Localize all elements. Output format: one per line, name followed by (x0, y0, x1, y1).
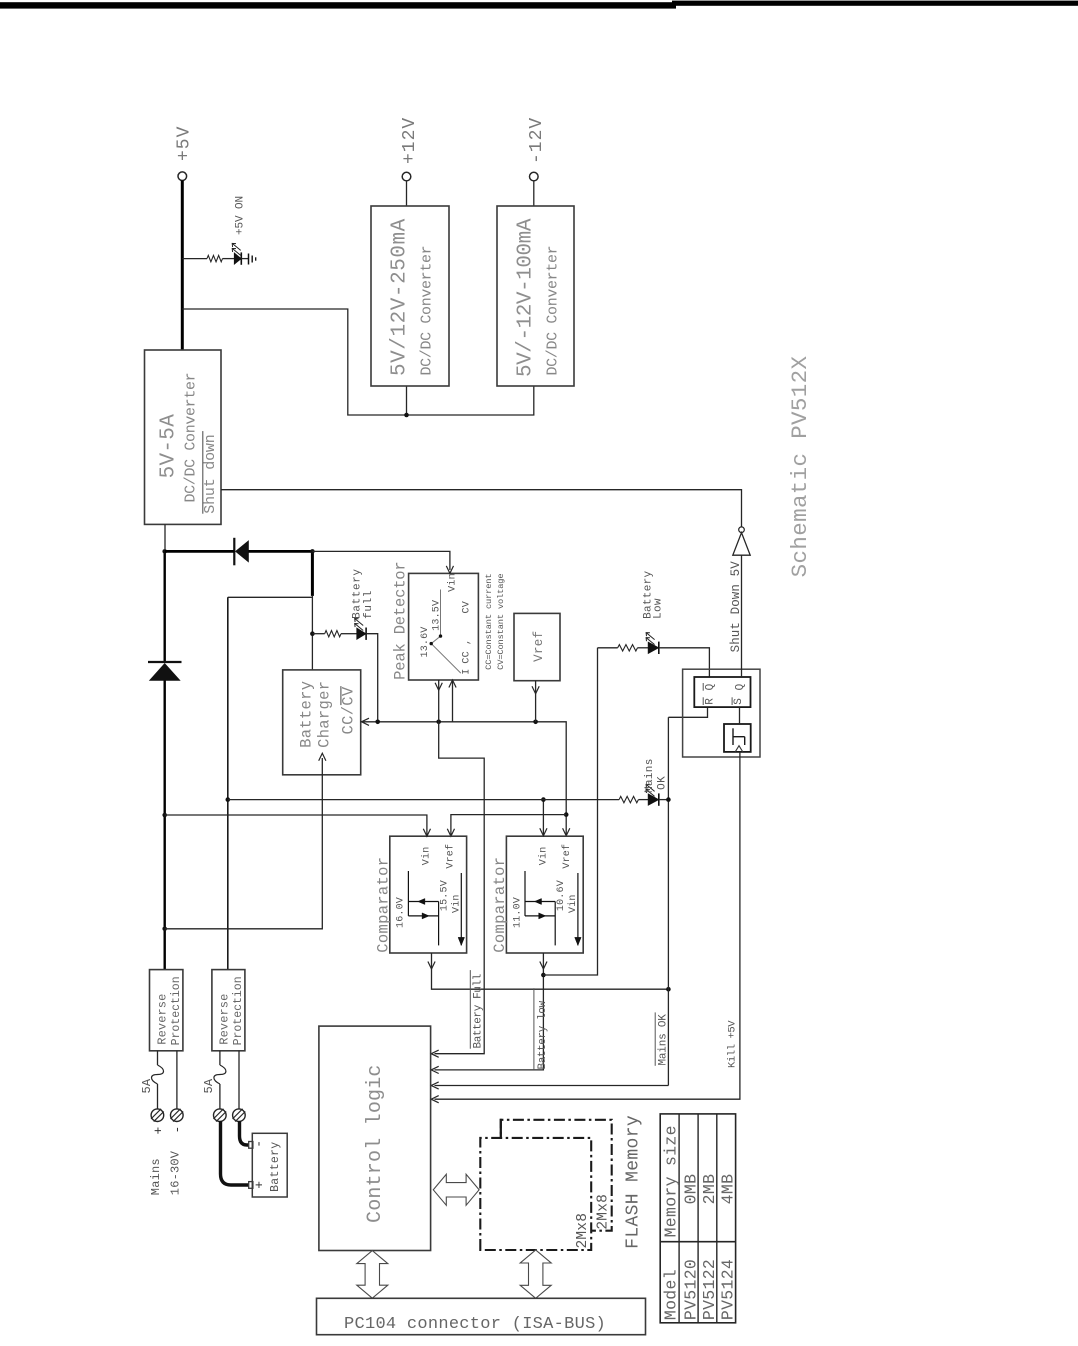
wire battery-full LED to control rail (366, 634, 378, 722)
node +12V terminal (402, 172, 411, 181)
junction dot battery sense tap (226, 797, 231, 802)
wire battery rail to charger (311, 596, 313, 670)
bus arrow control-flash (433, 1174, 479, 1205)
svg-text:13.6V: 13.6V (420, 626, 431, 657)
inverter U9 (733, 533, 750, 556)
svg-text:+5V ON: +5V ON (235, 196, 247, 235)
wire battery minus (238, 1051, 240, 1109)
table model/memory box (660, 1114, 735, 1323)
wire latch R input link (668, 707, 707, 717)
svg-text:OK: OK (657, 776, 669, 790)
arrow into charger (362, 718, 370, 725)
svg-text:CC=Constant current: CC=Constant current (484, 574, 494, 670)
svg-text:15.5V: 15.5V (440, 880, 451, 911)
svg-text:DC/DC Converter: DC/DC Converter (545, 246, 562, 376)
resistor R-LED5V (182, 258, 207, 260)
junction dot comp2 vin tap (541, 797, 546, 802)
svg-text:DC/DC Converter: DC/DC Converter (419, 246, 436, 376)
converter U3 5V/-12V-100mA box (497, 206, 574, 386)
clock caret (735, 746, 743, 752)
svg-text:Vref: Vref (532, 631, 546, 662)
wire battery-low to LED chain (543, 648, 597, 975)
wire vref output (535, 681, 537, 722)
arrow control input1 (431, 1050, 439, 1057)
svg-text:5A: 5A (202, 1078, 216, 1093)
LED Battery Low (648, 642, 659, 654)
ground (248, 254, 250, 265)
svg-text:Reverse: Reverse (218, 994, 232, 1045)
arrow peak Vin (446, 566, 453, 574)
arrow comp2 out (540, 962, 547, 970)
one-shot U8 box (724, 724, 751, 752)
resistor R-battfull (312, 633, 324, 635)
LED Battery full (357, 628, 366, 640)
bus arrow flash-pc104 (520, 1250, 551, 1298)
arrow comp1 vref (447, 829, 454, 837)
svg-text:10.6V: 10.6V (556, 880, 567, 911)
converter U1 5V-5A box (145, 350, 222, 524)
junction dot converters input (404, 413, 409, 418)
svg-text:5V/-12V-100mA: 5V/-12V-100mA (515, 218, 538, 377)
battery terminal - (249, 1142, 253, 1149)
svg-text:Memory size: Memory size (662, 1125, 681, 1237)
svg-text:Battery: Battery (352, 568, 364, 618)
connector PC104 box (317, 1298, 646, 1334)
svg-text:13.5V: 13.5V (431, 600, 442, 631)
peak detector U5 box (409, 573, 479, 680)
svg-text:+: + (252, 1181, 267, 1189)
arrow comp2 vref (563, 828, 570, 836)
flash back box solid corner (500, 1119, 502, 1138)
protection U11 Reverse Protection box (212, 970, 245, 1051)
svg-text:CV=Constant voltage: CV=Constant voltage (496, 574, 506, 670)
svg-text:Schematic PV512X: Schematic PV512X (787, 356, 813, 578)
junction dot comp2-out branch (541, 973, 546, 978)
diode D1 mains (150, 664, 181, 681)
wire +12V stub (406, 181, 408, 206)
shutdown logic outer box (683, 669, 760, 757)
svg-text:Q: Q (735, 683, 747, 690)
svg-text:Vin: Vin (567, 894, 579, 913)
control logic U12 box (319, 1026, 431, 1250)
screw terminal batt 2 (233, 1109, 246, 1122)
battery terminal + (249, 1182, 253, 1189)
node -12V terminal (530, 172, 539, 181)
svg-text:Vin: Vin (537, 847, 549, 866)
battery cable + (221, 1121, 249, 1185)
wire +5V rail (thick) (181, 181, 184, 351)
svg-text:Shut down: Shut down (202, 434, 219, 513)
battery cable - (240, 1121, 250, 1145)
svg-text:Vin: Vin (421, 847, 433, 866)
wire battery line (227, 597, 229, 969)
svg-text:PC104 connector (ISA-BUS): PC104 connector (ISA-BUS) (344, 1315, 606, 1334)
wire 5V-5A output stub (164, 524, 166, 551)
wire -12V stub (533, 181, 535, 206)
resistor R-mainsok (619, 796, 638, 802)
svg-text:11.0V: 11.0V (512, 897, 523, 928)
svg-text:+: + (151, 1127, 166, 1135)
junction dot vref tap (533, 720, 538, 725)
svg-text:Battery: Battery (269, 1141, 282, 1191)
svg-text:Protection: Protection (232, 976, 245, 1045)
svg-text:5V/12V-250mA: 5V/12V-250mA (389, 218, 412, 376)
svg-text:CV: CV (461, 601, 472, 613)
svg-text:0MB: 0MB (681, 1174, 700, 1205)
svg-text:Peak Detector: Peak Detector (391, 561, 409, 679)
svg-text:4MB: 4MB (719, 1174, 738, 1205)
svg-text:16.0V: 16.0V (396, 897, 407, 928)
junction dot batt-full led tap (375, 720, 380, 725)
svg-text:Battery low: Battery low (537, 1000, 549, 1069)
arrow vref out (532, 686, 539, 694)
wire comp2 vref entry (565, 815, 567, 836)
svg-text:5V-5A: 5V-5A (158, 414, 181, 479)
screw terminal batt 1 (214, 1109, 227, 1122)
svg-text:Shut Down 5V: Shut Down 5V (729, 561, 743, 653)
arrow comp2 Vin (540, 828, 547, 836)
arrow control input4 (431, 1096, 439, 1103)
wire comp2 Vin (542, 800, 544, 836)
junction dot mains/5V-5A node (162, 549, 167, 554)
svg-text:Low: Low (652, 598, 664, 619)
svg-text:Vin: Vin (450, 894, 462, 913)
junction dot battery node (310, 549, 315, 554)
wire Vref/control rail (378, 722, 567, 815)
screw terminal mains - (171, 1109, 184, 1122)
converter U2 5V/12V-250mA box (371, 206, 449, 386)
comparator box Comparator (390, 836, 467, 953)
wire peak det ref input (452, 680, 454, 722)
LED Mains OK (648, 794, 659, 806)
svg-text:2Mx8: 2Mx8 (575, 1213, 591, 1249)
junction dot vref branch (564, 812, 569, 817)
wire diode D2 link (thick) (165, 550, 235, 553)
svg-text:Vin: Vin (446, 573, 458, 592)
svg-text:2Mx8: 2Mx8 (596, 1194, 612, 1230)
LED +5V ON (234, 253, 241, 265)
svg-text:Battery: Battery (297, 681, 315, 748)
screw terminal mains + (151, 1109, 164, 1122)
arrow peak out (435, 683, 442, 691)
arrow control input3 (431, 1082, 439, 1089)
overline Shut down (202, 431, 204, 514)
svg-text:Control logic: Control logic (364, 1064, 387, 1223)
wire mains minus (176, 1051, 178, 1109)
svg-text:CC/CV: CC/CV (339, 686, 357, 734)
svg-text:16-30V: 16-30V (168, 1150, 182, 1195)
svg-text:CC ,: CC , (461, 639, 472, 664)
svg-text:PV5120: PV5120 (681, 1259, 700, 1320)
wire LED to latch Q1 (659, 648, 710, 677)
vref arrow line (577, 873, 579, 945)
battery B1 box (252, 1133, 287, 1197)
svg-text:-12V: -12V (527, 117, 547, 164)
svg-text:+12V: +12V (400, 117, 420, 164)
svg-text:DC/DC Converter: DC/DC Converter (183, 373, 200, 503)
junction dot battery-full chain tap (310, 631, 315, 636)
junction dot comp1-out to mainsok line (666, 987, 671, 992)
comparator box Comparator (506, 836, 583, 953)
flash front box 2Mx8 (480, 1138, 591, 1250)
wire latch Q to inverter (741, 555, 743, 677)
table column line (660, 1241, 735, 1243)
svg-text:PV5122: PV5122 (700, 1259, 719, 1320)
wire +5V branch to converters (182, 309, 534, 415)
arrow charger feed (319, 753, 326, 761)
svg-text:5A: 5A (140, 1078, 154, 1093)
svg-text:I: I (461, 669, 472, 675)
wire one-shot to kill line (435, 752, 740, 1099)
svg-text:Vref: Vref (561, 844, 573, 869)
svg-text:-: - (252, 1140, 267, 1148)
junction dot mainsok/led (666, 797, 671, 802)
wire charger power feed (165, 758, 323, 929)
svg-text:Reverse: Reverse (155, 994, 169, 1045)
svg-text:-: - (170, 1126, 185, 1134)
wire peak det output (battery full) (438, 680, 440, 722)
wire mains-ok to control input3 (435, 1085, 669, 1087)
junction dot charger feed tap (162, 927, 167, 932)
arrow comp1 out (428, 962, 435, 970)
reference U6 Vref box (514, 613, 560, 680)
wire comp1 output (Mains OK) (432, 953, 669, 989)
svg-text:Comparator: Comparator (374, 857, 392, 953)
fuse F2 5A (219, 1051, 221, 1065)
hysteresis symbol (407, 871, 409, 916)
svg-text:FLASH Memory: FLASH Memory (623, 1115, 643, 1249)
wire shut-down to inverter (221, 490, 742, 527)
wire comp2 output (Battery low) (435, 953, 544, 1070)
svg-text:Battery Full: Battery Full (473, 974, 485, 1048)
svg-text:R: R (705, 698, 717, 705)
table row lines (678, 1114, 680, 1323)
svg-text:Kill +5V: Kill +5V (727, 1020, 739, 1068)
svg-text:Charger: Charger (315, 681, 333, 748)
overline CV (340, 686, 342, 705)
charger U4 Battery Charger box (283, 670, 361, 775)
svg-text:S: S (733, 698, 745, 705)
curve CC/CV characteristic (431, 590, 461, 674)
protection U10 Reverse Protection box (150, 970, 183, 1051)
svg-text:Protection: Protection (170, 976, 183, 1045)
svg-text:Mains: Mains (644, 758, 656, 793)
arrow control input2 (431, 1066, 439, 1073)
svg-text:Vref: Vref (444, 844, 456, 869)
wire battery sense down (228, 799, 619, 801)
junction dot comparator1 sense tap (162, 813, 167, 818)
vref arrow line (460, 873, 462, 945)
bus arrow control-pc104 (357, 1251, 388, 1299)
wire peak detector Vin (312, 551, 450, 570)
diode D2 battery (233, 538, 235, 566)
svg-text:Mains OK: Mains OK (657, 1014, 669, 1066)
svg-text:Model: Model (662, 1269, 681, 1320)
svg-text:+5V: +5V (175, 126, 195, 161)
wire stub 5V/12V converter input (406, 386, 408, 415)
wire battery node to battery line (228, 596, 313, 598)
wire battery-full signal run (435, 722, 485, 1054)
hysteresis symbol (524, 871, 526, 916)
node +5V terminal (178, 172, 187, 181)
flash back box 2Mx8 (501, 1120, 612, 1231)
svg-text:Q: Q (705, 683, 717, 690)
wire mains rail (thick) (163, 681, 165, 970)
svg-text:Mains: Mains (149, 1158, 163, 1195)
latch U7 SR box (694, 677, 750, 707)
wire charger CC/CV control (361, 721, 378, 723)
junction dot peak-detector output tap (436, 720, 441, 725)
resistor R-battlow (598, 647, 618, 649)
wire battery node rail (thick) (311, 551, 314, 596)
arrow peak ref in (449, 680, 456, 688)
wire comp1 vref branch (451, 815, 566, 837)
wire latch S to one-shot (739, 707, 741, 724)
svg-text:Comparator: Comparator (491, 857, 509, 953)
scan artifact top bar (0, 2, 676, 8)
fuse F1 5A (157, 1051, 159, 1065)
wire mains-ok line (667, 717, 669, 1085)
wire comp1 Vin sense (165, 815, 427, 836)
pulse symbol (732, 728, 734, 745)
svg-text:2MB: 2MB (700, 1174, 719, 1205)
svg-text:full: full (363, 590, 375, 619)
arrow comp1 Vin (423, 829, 430, 837)
svg-text:PV5124: PV5124 (719, 1259, 738, 1320)
